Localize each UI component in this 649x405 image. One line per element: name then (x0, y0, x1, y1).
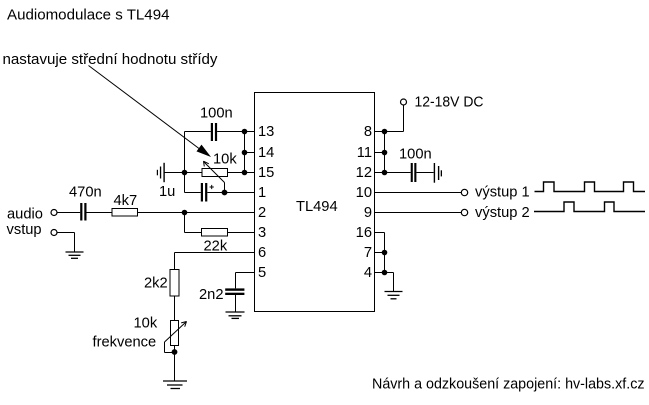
node pin2 junction (182, 210, 188, 216)
svg-text:TL494: TL494 (296, 199, 338, 215)
ground pin4 (385, 291, 403, 293)
svg-text:Audiomodulace s TL494: Audiomodulace s TL494 (7, 8, 170, 24)
wire right bus vertical (384, 132, 386, 173)
wire pin 16 right (375, 232, 385, 234)
svg-text:15: 15 (258, 165, 274, 181)
waveform output 2 (534, 202, 645, 212)
op-amp U1 TL494 IC body (255, 93, 375, 312)
wire 2n2 to ground (235, 295, 237, 312)
node pin4 junction (382, 270, 388, 276)
svg-text:8: 8 (364, 124, 372, 140)
terminal vystup 1 (461, 189, 467, 195)
wire pin2 node down to 22k (184, 213, 186, 233)
ground 2n2 (226, 311, 245, 313)
svg-text:100n: 100n (399, 146, 432, 162)
wire 1u to pin 1 (207, 192, 254, 194)
wire pin 10 to output 1 (375, 192, 462, 194)
svg-text:2n2: 2n2 (199, 287, 224, 303)
node pin7 junction (382, 250, 388, 256)
potentiometer wiper arrowhead (203, 161, 206, 166)
potentiometer R10k trimmer body (202, 169, 228, 177)
wire 22k to pin 3 (228, 232, 255, 234)
capacitor C4 2n2 plates (225, 288, 244, 290)
svg-text:4: 4 (364, 265, 372, 281)
svg-text:5: 5 (258, 265, 266, 281)
svg-text:13: 13 (258, 124, 274, 140)
capacitor C2 1u plates (201, 183, 203, 202)
svg-text:frekvence: frekvence (93, 334, 157, 350)
svg-text:12-18V DC: 12-18V DC (415, 94, 484, 110)
capacitor C5 100n plates (411, 163, 413, 182)
svg-text:1u: 1u (159, 184, 175, 200)
svg-text:vstup: vstup (7, 222, 42, 238)
node pin1 junction (222, 190, 228, 196)
ground vstup (66, 251, 84, 253)
node pin14 junction (242, 150, 248, 156)
wire C5 to ground (416, 172, 433, 174)
svg-text:audio: audio (7, 207, 43, 223)
wire trimmer to ground (174, 346, 176, 382)
wire audio to C3 (57, 212, 80, 214)
wire R1 to pin 2 (138, 212, 255, 214)
wire pins 16-7-4 vertical (384, 233, 386, 273)
annotation arrowhead (197, 145, 212, 157)
potentiometer R4 wiper diagonal (165, 322, 187, 343)
svg-text:Návrh a odzkoušení zapojení: h: Návrh a odzkoušení zapojení: hv-labs.xf.… (372, 376, 645, 392)
svg-text:výstup 2: výstup 2 (475, 205, 530, 221)
wire pin 6 left (175, 252, 255, 254)
wire vstup to ground (57, 232, 75, 234)
ground sideways right (434, 163, 435, 183)
svg-text:10: 10 (356, 185, 372, 201)
capacitor C3 470n plates (80, 203, 82, 221)
wire pin 9 to output 2 (375, 212, 462, 214)
wire wiper to bottom (164, 342, 166, 353)
svg-text:12: 12 (356, 165, 372, 181)
capacitor C1 100n plates (211, 123, 213, 141)
node pot left junction (182, 170, 188, 176)
wire pin 12 to C5 (375, 172, 411, 174)
wire pin 5 left (236, 272, 255, 274)
svg-text:9: 9 (364, 205, 372, 221)
svg-text:100n: 100n (200, 106, 233, 122)
wire loop bottom to 1u (185, 192, 201, 194)
terminal vstup ground (51, 230, 57, 236)
svg-text:2: 2 (258, 205, 266, 221)
svg-text:14: 14 (258, 145, 274, 161)
node trimmer bottom junction (172, 349, 178, 355)
svg-text:výstup 1: výstup 1 (475, 185, 530, 201)
potentiometer R4 body (171, 321, 179, 346)
svg-text:10k: 10k (213, 152, 237, 168)
ground frekvence (163, 380, 187, 382)
terminal vystup 2 (461, 209, 467, 215)
node pin11 junction (382, 150, 388, 156)
wire supply down (403, 105, 405, 132)
node pin8 junction (382, 129, 388, 135)
terminal audio input (51, 210, 57, 216)
node pin13 junction (242, 129, 248, 135)
wire C1 to pin 13 (217, 131, 254, 133)
svg-text:6: 6 (258, 245, 266, 261)
wire vertical pins 13-14-15 (244, 132, 246, 173)
svg-text:22k: 22k (204, 238, 228, 254)
wire ground to pot node (165, 172, 203, 174)
svg-text:470n: 470n (69, 184, 102, 200)
wire pin 14 stub (245, 152, 255, 154)
potentiometer wiper diagonal (204, 162, 225, 183)
wire pin13 top loop left (185, 131, 211, 133)
ground sideways left of pot (163, 163, 164, 182)
annotation arrow line (89, 66, 204, 152)
svg-text:nastavuje střední hodnotu stří: nastavuje střední hodnotu střídy (3, 52, 219, 68)
resistor R1 4k7 body (112, 209, 138, 217)
wire C3 to R1 (87, 212, 113, 214)
svg-text:3: 3 (258, 225, 266, 241)
svg-text:1: 1 (258, 185, 266, 201)
resistor R3 2k2 body (170, 270, 179, 297)
node pin15 junction (242, 170, 248, 176)
resistor R2 22k body (202, 229, 228, 237)
waveform output 1 (535, 182, 646, 192)
svg-text:4k7: 4k7 (114, 193, 138, 209)
svg-text:2k2: 2k2 (144, 276, 168, 292)
wire left vertical of loop (184, 132, 186, 193)
wire pin 8 row (375, 131, 404, 133)
wire pin 11 stub (375, 152, 385, 154)
potentiometer R4 wiper arrowhead (185, 322, 187, 327)
terminal 12-18V DC supply (401, 99, 407, 105)
svg-text:11: 11 (357, 145, 372, 161)
wire 2k2 to trimmer (174, 296, 176, 321)
svg-text:7: 7 (364, 245, 372, 261)
svg-text:10k: 10k (134, 316, 158, 332)
wire pin 7 stub (375, 252, 385, 254)
node pin12 junction (382, 170, 388, 176)
svg-text:16: 16 (356, 225, 372, 241)
capacitor C2 plus sign (210, 186, 214, 188)
wire pot right to pin 15 (228, 172, 255, 174)
wire pin 4 row (375, 272, 394, 274)
wire pin4 to ground (393, 273, 395, 292)
